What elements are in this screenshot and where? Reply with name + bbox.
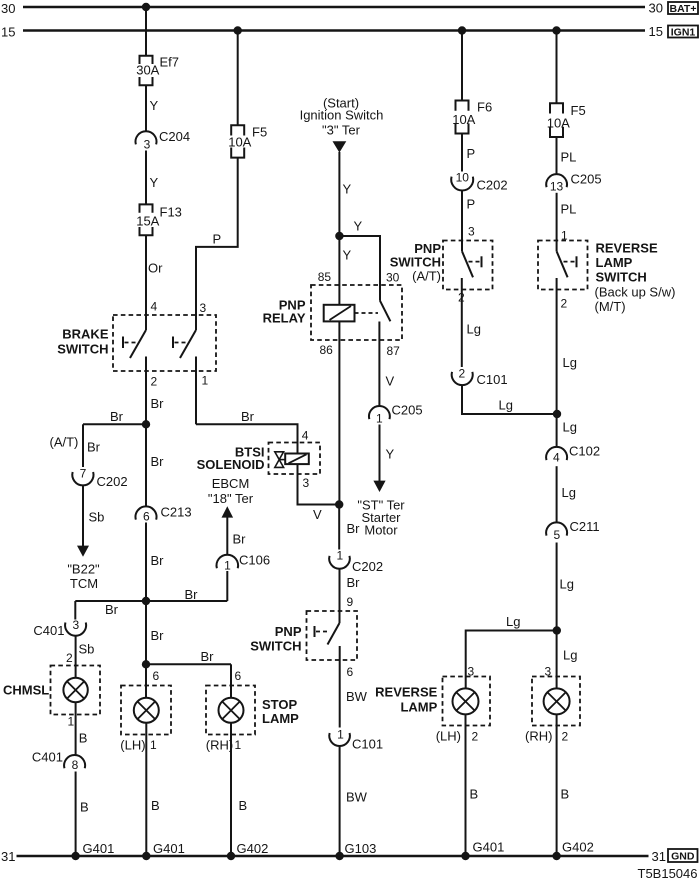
wire brake sw left lower to stop lamps bbox=[145, 357, 147, 699]
reverse lamp switch actuator bbox=[564, 256, 577, 267]
junction bbox=[142, 420, 150, 428]
svg-text:BW: BW bbox=[346, 790, 368, 805]
svg-text:30: 30 bbox=[649, 1, 663, 16]
wire Lg pin 2 to C101 bbox=[461, 278, 463, 367]
svg-text:3: 3 bbox=[468, 665, 475, 679]
svg-text:Lg: Lg bbox=[560, 577, 574, 592]
brake switch contact 2 actuator bbox=[173, 337, 190, 349]
svg-text:BW: BW bbox=[346, 689, 368, 704]
svg-text:2: 2 bbox=[562, 730, 569, 744]
svg-text:Sb: Sb bbox=[89, 510, 105, 525]
fuse F13 15A bbox=[140, 204, 153, 235]
junction with BTSI wire bbox=[335, 500, 343, 508]
svg-text:F5: F5 bbox=[252, 125, 267, 140]
svg-text:"3" Ter: "3" Ter bbox=[322, 123, 361, 138]
wire brake sw right lower bbox=[195, 315, 197, 424]
wire bbox=[145, 235, 147, 330]
svg-text:Lg: Lg bbox=[563, 420, 577, 435]
svg-text:C204: C204 bbox=[159, 129, 190, 144]
wire to C106 bbox=[146, 571, 227, 601]
reverse lamp RH box bbox=[532, 677, 580, 726]
svg-text:3: 3 bbox=[72, 618, 79, 632]
arrow to B22 TCM bbox=[77, 546, 89, 557]
svg-text:8: 8 bbox=[72, 758, 79, 772]
svg-text:SWITCH: SWITCH bbox=[390, 255, 441, 270]
terminal box IGN1 bbox=[668, 26, 698, 38]
connector C202 pin 7 bbox=[72, 472, 93, 485]
PNP switch blade bbox=[328, 623, 340, 645]
svg-text:REVERSE: REVERSE bbox=[596, 241, 658, 256]
svg-text:C202: C202 bbox=[477, 178, 508, 193]
svg-text:2: 2 bbox=[151, 375, 158, 389]
svg-text:2: 2 bbox=[458, 291, 465, 305]
svg-text:C101: C101 bbox=[477, 372, 508, 387]
svg-text:Br: Br bbox=[87, 440, 101, 455]
svg-text:85: 85 bbox=[318, 270, 332, 284]
svg-text:2: 2 bbox=[66, 651, 73, 665]
svg-text:G401: G401 bbox=[153, 841, 185, 856]
svg-text:P: P bbox=[213, 232, 222, 247]
svg-text:Motor: Motor bbox=[364, 523, 398, 538]
connector C106 pin 1 bbox=[216, 555, 238, 569]
svg-text:30: 30 bbox=[386, 271, 400, 285]
svg-text:(LH): (LH) bbox=[120, 738, 145, 753]
svg-text:3: 3 bbox=[200, 301, 207, 315]
svg-text:G402: G402 bbox=[237, 841, 269, 856]
connector C102 pin 4 bbox=[546, 447, 567, 460]
svg-text:3: 3 bbox=[303, 476, 310, 490]
ground junction G103 bbox=[335, 852, 343, 860]
svg-text:4: 4 bbox=[302, 429, 309, 443]
terminal box BAT+ bbox=[668, 2, 698, 14]
junction to EBCM branch bbox=[142, 597, 150, 605]
wire PL to reverse lamp switch pin 1 bbox=[556, 193, 558, 252]
svg-text:2: 2 bbox=[561, 297, 568, 311]
svg-text:SWITCH: SWITCH bbox=[57, 342, 108, 357]
svg-text:C205: C205 bbox=[571, 172, 602, 187]
wire bbox=[226, 517, 228, 555]
connector C401 pin 8 bbox=[64, 755, 85, 768]
svg-text:C401: C401 bbox=[32, 750, 63, 765]
svg-text:4: 4 bbox=[151, 300, 158, 314]
wire P bbox=[461, 134, 463, 172]
svg-text:Br: Br bbox=[185, 587, 199, 602]
svg-text:Y: Y bbox=[354, 219, 363, 234]
wire Br relay junction to C202 bbox=[338, 505, 340, 550]
svg-text:Lg: Lg bbox=[562, 485, 576, 500]
svg-text:15A: 15A bbox=[136, 214, 159, 229]
wire to LH reverse lamp bbox=[466, 631, 557, 689]
svg-text:6: 6 bbox=[235, 669, 242, 683]
svg-text:P: P bbox=[467, 197, 476, 212]
wire bbox=[145, 85, 147, 131]
PNP switch AT blade bbox=[462, 251, 473, 277]
svg-text:TCM: TCM bbox=[70, 576, 98, 591]
wire Lg bbox=[556, 466, 558, 522]
svg-text:B: B bbox=[80, 800, 89, 815]
wire relay 86 down bbox=[338, 321, 340, 504]
svg-text:2: 2 bbox=[459, 367, 466, 381]
svg-text:Ignition Switch: Ignition Switch bbox=[300, 108, 384, 123]
svg-text:(M/T): (M/T) bbox=[595, 299, 626, 314]
wire BW to G103 bbox=[339, 746, 341, 856]
svg-text:4: 4 bbox=[553, 451, 560, 465]
connector C205 pin 13 bbox=[546, 174, 567, 187]
svg-text:C202: C202 bbox=[352, 559, 383, 574]
svg-text:9: 9 bbox=[347, 595, 354, 609]
svg-text:(RH): (RH) bbox=[525, 729, 552, 744]
junction on rail 15 bbox=[234, 26, 242, 34]
svg-text:Lg: Lg bbox=[506, 614, 520, 629]
svg-text:1: 1 bbox=[561, 229, 568, 243]
svg-text:Br: Br bbox=[233, 532, 247, 547]
wire to RH stop lamp bbox=[146, 664, 231, 698]
svg-text:7: 7 bbox=[80, 467, 87, 481]
svg-text:T5B15046: T5B15046 bbox=[638, 866, 698, 881]
reverse lamp switch box bbox=[538, 241, 588, 290]
BTSI valve symbol bbox=[275, 452, 285, 468]
reverse lamp LH bbox=[453, 688, 479, 714]
wire bbox=[75, 636, 77, 678]
wire branch to A/T TCM bbox=[83, 424, 146, 467]
svg-text:F6: F6 bbox=[477, 100, 492, 115]
svg-text:C202: C202 bbox=[97, 474, 128, 489]
svg-text:EBCM: EBCM bbox=[212, 476, 250, 491]
svg-text:6: 6 bbox=[153, 669, 160, 683]
fuse Ef7 30A bbox=[140, 56, 153, 85]
arrow to ST ter starter motor bbox=[373, 481, 385, 492]
wire relay 87 to C205 bbox=[378, 322, 380, 407]
svg-text:1: 1 bbox=[337, 728, 344, 742]
svg-text:Lg: Lg bbox=[563, 355, 577, 370]
svg-text:C106: C106 bbox=[239, 553, 270, 568]
PNP switch AT box bbox=[443, 241, 493, 290]
svg-text:Br: Br bbox=[151, 628, 165, 643]
svg-text:1: 1 bbox=[68, 715, 75, 729]
svg-text:P: P bbox=[467, 146, 476, 161]
stop lamp RH bbox=[219, 698, 244, 723]
wire P to brake switch pin 3 bbox=[196, 158, 238, 315]
svg-text:10: 10 bbox=[456, 171, 470, 185]
svg-text:Br: Br bbox=[201, 649, 215, 664]
svg-text:Br: Br bbox=[110, 409, 124, 424]
svg-text:C205: C205 bbox=[392, 403, 423, 418]
svg-text:G401: G401 bbox=[473, 840, 505, 855]
stop lamp LH box bbox=[121, 686, 171, 735]
wire bbox=[145, 151, 147, 205]
svg-text:CHMSL: CHMSL bbox=[3, 683, 49, 698]
fuse F5 10A (right) bbox=[550, 103, 563, 137]
svg-text:3: 3 bbox=[144, 138, 151, 152]
svg-text:Y: Y bbox=[150, 98, 159, 113]
wire fuse F5a column x=237.7 bbox=[237, 31, 239, 126]
svg-text:B: B bbox=[239, 798, 248, 813]
svg-text:1: 1 bbox=[202, 374, 209, 388]
svg-text:C213: C213 bbox=[161, 505, 192, 520]
wire bbox=[75, 702, 77, 755]
svg-text:Y: Y bbox=[343, 248, 352, 263]
svg-text:BAT+: BAT+ bbox=[670, 3, 697, 15]
terminal box GND bbox=[668, 849, 698, 862]
wire to relay contact 30 bbox=[339, 236, 380, 301]
relay contact blade bbox=[380, 301, 390, 322]
svg-text:PL: PL bbox=[561, 150, 577, 165]
relay coil bbox=[324, 305, 355, 322]
svg-text:Or: Or bbox=[148, 261, 163, 276]
svg-text:Br: Br bbox=[347, 521, 361, 536]
svg-text:Y: Y bbox=[150, 175, 159, 190]
ignition switch feed arrow bbox=[333, 141, 347, 152]
svg-text:5: 5 bbox=[553, 528, 560, 542]
svg-text:V: V bbox=[386, 374, 395, 389]
arrow to EBCM 18 ter bbox=[222, 506, 234, 517]
svg-text:GND: GND bbox=[671, 851, 695, 863]
junction reverse lamp branch bbox=[553, 626, 561, 634]
wire fuse F5 column x=556.5 bbox=[556, 31, 558, 104]
svg-text:SOLENOID: SOLENOID bbox=[197, 457, 265, 472]
connector C202 pin 1 bbox=[329, 556, 350, 569]
wire branch to CHMSL bbox=[75, 601, 146, 620]
wire Br to PNP switch pin 9 bbox=[339, 569, 341, 623]
CHMSL box bbox=[51, 666, 101, 715]
brake switch contact 2 blade bbox=[180, 330, 196, 358]
ground junctions right bbox=[461, 852, 469, 860]
connector C211 pin 5 bbox=[546, 522, 567, 535]
PNP switch AT actuator bbox=[469, 256, 482, 267]
net 31 GND rail bbox=[17, 855, 649, 857]
svg-text:"B22": "B22" bbox=[67, 562, 100, 577]
connector C205 pin 1 bbox=[369, 406, 390, 419]
svg-text:Br: Br bbox=[151, 454, 165, 469]
svg-text:V: V bbox=[313, 507, 322, 522]
svg-text:10A: 10A bbox=[452, 112, 475, 127]
brake switch box bbox=[113, 315, 216, 371]
junction branch to relay contact 30 bbox=[335, 232, 343, 240]
connector C401 pin 3 bbox=[65, 622, 86, 635]
wire to G401 bbox=[75, 772, 77, 857]
svg-text:1: 1 bbox=[235, 738, 242, 752]
wire LH stop to G401 bbox=[145, 723, 147, 857]
svg-text:1: 1 bbox=[224, 559, 231, 573]
svg-text:C102: C102 bbox=[569, 444, 600, 459]
svg-text:C101: C101 bbox=[352, 737, 383, 752]
BTSI solenoid box bbox=[269, 443, 321, 475]
svg-text:Br: Br bbox=[105, 602, 119, 617]
svg-text:B: B bbox=[151, 798, 160, 813]
svg-text:Lg: Lg bbox=[499, 398, 513, 413]
svg-text:30A: 30A bbox=[136, 63, 159, 78]
svg-text:G402: G402 bbox=[562, 840, 594, 855]
svg-text:STOP: STOP bbox=[262, 697, 297, 712]
svg-text:31: 31 bbox=[652, 849, 666, 864]
PNP switch box (bottom) bbox=[307, 611, 358, 660]
ground junction G401 bbox=[71, 852, 79, 860]
svg-text:31: 31 bbox=[1, 849, 15, 864]
svg-text:(A/T): (A/T) bbox=[50, 435, 79, 450]
svg-text:(Back up S/w): (Back up S/w) bbox=[595, 285, 676, 300]
svg-text:10A: 10A bbox=[228, 135, 251, 150]
svg-text:13: 13 bbox=[550, 180, 564, 194]
svg-text:C211: C211 bbox=[570, 519, 600, 534]
svg-text:3: 3 bbox=[468, 225, 475, 239]
svg-text:1: 1 bbox=[336, 549, 343, 563]
brake switch contact 1 blade bbox=[130, 330, 146, 358]
svg-text:B: B bbox=[561, 787, 570, 802]
svg-text:LAMP: LAMP bbox=[262, 711, 299, 726]
svg-text:F13: F13 bbox=[160, 205, 182, 220]
svg-text:Br: Br bbox=[241, 409, 255, 424]
wire Y to starter bbox=[379, 425, 381, 482]
wire Y ignition to relay coil bbox=[338, 152, 340, 305]
fuse F6 10A bbox=[456, 101, 469, 134]
svg-text:Sb: Sb bbox=[79, 642, 95, 657]
wire RH reverse to G402 bbox=[556, 714, 558, 856]
net 30 BAT rail bbox=[23, 6, 645, 8]
svg-text:LAMP: LAMP bbox=[596, 255, 633, 270]
svg-text:IGN1: IGN1 bbox=[671, 27, 696, 39]
svg-text:SWITCH: SWITCH bbox=[250, 639, 301, 654]
svg-text:(LH): (LH) bbox=[436, 729, 461, 744]
reverse lamp RH bbox=[544, 688, 570, 714]
wire main left column x=146 bbox=[145, 7, 147, 56]
svg-text:B: B bbox=[79, 731, 88, 746]
net 15 IGN1 rail bbox=[23, 29, 645, 31]
junction with C101 branch bbox=[553, 410, 561, 418]
svg-text:SWITCH: SWITCH bbox=[596, 270, 647, 285]
PNP relay box bbox=[311, 285, 402, 340]
wire Lg pin 2 down bbox=[556, 278, 558, 447]
svg-text:Br: Br bbox=[151, 396, 165, 411]
svg-text:"18" Ter: "18" Ter bbox=[208, 491, 254, 506]
svg-text:6: 6 bbox=[143, 510, 150, 524]
wire PNP switch pin 6 to C101 bbox=[339, 646, 341, 728]
relay coil-contact link bbox=[355, 312, 379, 314]
wire Lg joining right column bbox=[462, 385, 557, 414]
junction on rail 30 bbox=[142, 3, 150, 11]
wire Lg to reverse lamps bbox=[556, 543, 558, 689]
stop lamp LH bbox=[134, 698, 159, 723]
svg-text:Lg: Lg bbox=[467, 322, 481, 337]
reverse lamp LH box bbox=[443, 677, 491, 726]
connector C202 pin 10 bbox=[451, 177, 473, 191]
fuse F5 10A (left) bbox=[231, 125, 244, 157]
svg-text:RELAY: RELAY bbox=[263, 311, 306, 326]
CHMSL lamp bbox=[63, 678, 87, 702]
svg-text:Br: Br bbox=[151, 553, 165, 568]
junction on rail 15 bbox=[458, 26, 466, 34]
wire LH reverse to G401 bbox=[465, 714, 467, 856]
svg-text:G401: G401 bbox=[83, 841, 115, 856]
svg-text:6: 6 bbox=[347, 665, 354, 679]
BTSI solenoid coil bbox=[285, 454, 309, 465]
ground junctions bbox=[142, 852, 150, 860]
svg-text:Br: Br bbox=[347, 575, 361, 590]
svg-text:REVERSE: REVERSE bbox=[375, 685, 437, 700]
svg-text:15: 15 bbox=[1, 25, 15, 40]
connector C101 pin 2 bbox=[452, 372, 473, 385]
svg-text:G103: G103 bbox=[345, 841, 377, 856]
wire bbox=[82, 485, 84, 546]
PNP switch actuator bbox=[315, 626, 331, 637]
connector C101 pin 1 bbox=[329, 733, 350, 746]
wire RH stop to G402 bbox=[230, 723, 232, 857]
connector C204 pin 3 bbox=[136, 131, 157, 144]
wire BTSI pin 3 to relay column bbox=[298, 464, 340, 504]
svg-text:PNP: PNP bbox=[275, 624, 302, 639]
svg-text:1: 1 bbox=[150, 738, 157, 752]
junction stop lamp branch bbox=[142, 660, 150, 668]
wire P to PNP switch AT pin 3 bbox=[461, 190, 463, 251]
svg-text:87: 87 bbox=[387, 344, 401, 358]
wire PL bbox=[556, 137, 558, 174]
svg-text:PL: PL bbox=[561, 202, 577, 217]
reverse lamp switch blade bbox=[557, 251, 568, 277]
svg-text:2: 2 bbox=[472, 730, 479, 744]
svg-text:C401: C401 bbox=[33, 623, 64, 638]
svg-text:(A/T): (A/T) bbox=[412, 269, 441, 284]
svg-text:10A: 10A bbox=[547, 116, 570, 131]
svg-text:3: 3 bbox=[545, 665, 552, 679]
svg-text:(RH): (RH) bbox=[206, 738, 233, 753]
svg-text:Y: Y bbox=[386, 447, 395, 462]
wire fuse F6 column x=462 bbox=[461, 31, 463, 101]
svg-text:Lg: Lg bbox=[563, 648, 577, 663]
svg-text:15: 15 bbox=[649, 24, 663, 39]
stop lamp RH box bbox=[206, 686, 255, 735]
svg-text:Y: Y bbox=[343, 182, 352, 197]
junction on rail 15 bbox=[552, 26, 560, 34]
svg-text:30: 30 bbox=[1, 1, 15, 16]
connector C213 pin 6 bbox=[136, 506, 157, 519]
svg-text:LAMP: LAMP bbox=[400, 700, 437, 715]
brake switch contact 1 actuator bbox=[123, 337, 140, 349]
svg-text:86: 86 bbox=[320, 343, 334, 357]
svg-text:1: 1 bbox=[376, 412, 383, 426]
svg-text:F5: F5 bbox=[571, 103, 586, 118]
svg-text:B: B bbox=[470, 787, 479, 802]
svg-text:Ef7: Ef7 bbox=[160, 55, 180, 70]
wire Br from brake switch pin 1 to BTSI pin 4 bbox=[196, 424, 298, 453]
svg-text:BRAKE: BRAKE bbox=[62, 327, 109, 342]
